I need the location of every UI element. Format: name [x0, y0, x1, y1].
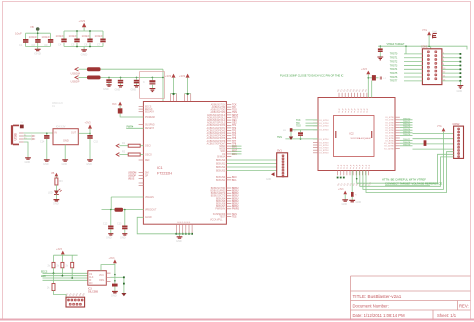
IC2 top inside pin names vertical: [339, 108, 369, 113]
capacitor C14 regulator input: [40, 133, 50, 166]
supply +5V LED chain: [51, 172, 58, 178]
resistor R9 near CPLD: [283, 128, 296, 140]
svg-text:OUT: OUT: [71, 132, 77, 135]
svg-text:ACBUS7/GPIOH7: ACBUS7/GPIOH7: [207, 142, 226, 145]
svg-text:GND: GND: [53, 203, 59, 206]
svg-text:C6: C6: [84, 43, 88, 47]
wire BDBUS to SV1: [226, 166, 276, 168]
ground GND under IC1: [176, 234, 182, 243]
wire USB GND down: [24, 142, 28, 158]
svg-text:CS: CS: [89, 274, 93, 276]
supply +3V3 right of EEPROM: [109, 257, 117, 265]
svg-text:ADBUS3/TMS: ADBUS3/TMS: [211, 111, 226, 114]
svg-text:ACBUS5/GPIOH5: ACBUS5/GPIOH5: [207, 137, 226, 140]
svg-text:ADBUS1/TDI: ADBUS1/TDI: [212, 106, 226, 109]
svg-text:TDI: TDI: [296, 123, 300, 125]
connector CON1 top right: [421, 46, 442, 85]
pin BDBUS7: [226, 205, 231, 207]
ground GND right of CON1: [457, 86, 464, 94]
wire EECS to EEPROM: [43, 272, 88, 274]
pin ACBUS3/GPIOH3: [226, 132, 231, 134]
svg-text:GND: GND: [62, 163, 68, 166]
svg-text:ORG: ORG: [99, 280, 104, 282]
supply arrow above CON1: [422, 29, 431, 46]
svg-text:CON1: CON1: [421, 46, 428, 49]
svg-text:GND: GND: [342, 203, 348, 206]
svg-text:GND: GND: [120, 237, 126, 240]
junction at 429: [428, 45, 430, 47]
svg-text:+3V3: +3V3: [179, 74, 186, 78]
svg-text:VREGIN: VREGIN: [145, 197, 154, 199]
svg-text:DP: DP: [145, 175, 149, 177]
svg-text:CLK: CLK: [89, 277, 94, 279]
svg-text:USBDP: USBDP: [128, 175, 136, 177]
IC2 bottom slanted pin labels: [338, 181, 373, 186]
resistor R6 pullup: [66, 255, 74, 278]
bead label and mark: [380, 77, 382, 80]
svg-text:BDBUS1: BDBUS1: [216, 163, 226, 165]
wire EEQ to EEPROM: [43, 279, 88, 281]
svg-text:VCC: VCC: [99, 275, 104, 277]
svg-text:ADBUS7/GPIOL3: ADBUS7/GPIOL3: [207, 122, 226, 125]
EEPROM pull-up rail wire: [54, 254, 78, 256]
polarized capacitor C17 top right: [432, 31, 438, 39]
svg-text:PLACE 100NF CLOSE TO EACH VCC: PLACE 100NF CLOSE TO EACH VCC PIN OF THE…: [280, 74, 344, 78]
wires CPLD to CON2: [413, 134, 454, 150]
junctions pullups: [53, 272, 74, 279]
svg-text:AGND: AGND: [145, 216, 152, 219]
svg-text:ADBUS4/GPIOL0: ADBUS4/GPIOL0: [207, 114, 226, 117]
junction VCORE left: [110, 209, 112, 211]
svg-text:PWRS: PWRS: [232, 209, 239, 211]
svg-text:IO_1/TDI: IO_1/TDI: [320, 123, 329, 125]
wire EECLK to EEPROM: [43, 275, 88, 277]
ferrite bead FB1: [87, 67, 101, 71]
svg-text:BCBUS1: BCBUS1: [216, 180, 226, 182]
svg-text:D-: D-: [24, 134, 26, 136]
svg-text:100nF: 100nF: [95, 34, 104, 38]
pin BDBUS6: [226, 203, 231, 205]
wire JTAG bus 2: [360, 157, 454, 186]
IC2 top pin stubs: [339, 93, 367, 98]
svg-text:C1: C1: [19, 43, 23, 47]
wire stub to GND from last CON1 row: [459, 81, 461, 86]
supply +3V3 arrow group1 above IC1: [165, 74, 177, 102]
svg-text:ACBUS2/GPIOH2: ACBUS2/GPIOH2: [207, 129, 226, 132]
svg-text:+3V3: +3V3: [79, 19, 86, 23]
wire TMS long at CPLD left: [285, 138, 318, 140]
pin ADBUS5/GPIOL1: [226, 117, 231, 119]
svg-text:IO_9/TDI: IO_9/TDI: [320, 153, 329, 155]
svg-text:GND: GND: [63, 139, 69, 143]
ground GND under USB: [25, 158, 31, 164]
wire drop from junction: [405, 46, 407, 54]
supply +3V3 symbol bank2: [79, 19, 87, 31]
pin MISO: [226, 145, 231, 147]
svg-text:BDBUS2: BDBUS2: [216, 167, 226, 169]
pin BDBUS2/RTS: [226, 192, 231, 194]
pin SI/WUA: [226, 156, 231, 158]
svg-text:IO_2/TDI: IO_2/TDI: [320, 126, 329, 128]
svg-text:G G G G G G: G G G G G G: [177, 222, 191, 224]
pin BDBUS0/TXD: [226, 187, 231, 189]
svg-text:TRGT9: TRGT9: [403, 144, 411, 146]
svg-text:ADBUS2/TDO: ADBUS2/TDO: [211, 109, 226, 112]
pin ACBUS5/GPIOH5: [226, 137, 231, 139]
wire BDBUS to SV1: [226, 163, 276, 165]
wire USB D+: [24, 138, 32, 140]
svg-text:TRGT6: TRGT6: [403, 134, 411, 136]
pin ACBUS6/GPIOH6: [226, 140, 231, 142]
net arrow USBDP: [75, 76, 79, 80]
svg-text:BC1: BC1: [232, 180, 237, 182]
capacitor C3 100nF: [48, 39, 53, 43]
svg-text:PWRSAV: PWRSAV: [215, 208, 225, 211]
svg-text:C4: C4: [58, 43, 62, 47]
svg-text:100nF: 100nF: [69, 34, 78, 38]
pin ACBUS4/GPIOH4: [226, 135, 231, 137]
supply +3V3 EEPROM rail: [56, 248, 65, 255]
pin ADBUS6/GPIOL2: [226, 119, 231, 121]
wire VREGIN from left: [111, 196, 143, 198]
svg-text:IO_4/TDI: IO_4/TDI: [320, 139, 329, 141]
svg-text:DM: DM: [145, 172, 149, 174]
capacitor C15 regulator output: [86, 133, 98, 166]
IC3 EEPROM 93LC56B: [88, 271, 107, 294]
voltage regulator IC4: [53, 126, 78, 145]
IC2 CPLD outer box: [318, 98, 395, 171]
svg-text:LED: LED: [48, 192, 53, 195]
svg-text:+3V3: +3V3: [165, 74, 172, 78]
svg-text:VTG: VTG: [422, 29, 427, 32]
LED1: [48, 189, 62, 195]
svg-text:C14: C14: [40, 141, 45, 144]
wire JTAG bus 4: [366, 152, 454, 193]
svg-text:TEST: TEST: [219, 217, 225, 219]
svg-text:OSCI: OSCI: [145, 146, 151, 148]
pin ADBUS7/GPIOL3: [226, 122, 231, 124]
pin BDBUS3/CTS: [226, 195, 231, 197]
svg-text:100nF: 100nF: [82, 34, 91, 38]
ferrite bead FB3: [368, 75, 378, 80]
resistor R3 vertical: [55, 178, 63, 191]
CON1 right pin numbers: [443, 52, 446, 81]
svg-text:ACBUS4/GPIOH4: ACBUS4/GPIOH4: [207, 135, 226, 138]
wires TCK TDI TDO at CPLD left: [306, 120, 319, 126]
svg-text:SV1: SV1: [277, 150, 282, 153]
wire VTREF long top: [380, 46, 467, 49]
pin ACBUS1/GPIOH1: [226, 127, 231, 129]
supply +3V3 top-left of IC1: [112, 102, 122, 109]
svg-text:VBUS: VBUS: [128, 178, 135, 180]
svg-text:IN: IN: [55, 132, 58, 135]
junction at 406: [405, 45, 407, 47]
junction VCORE right: [124, 209, 126, 211]
decoupling capacitor C9: [115, 77, 124, 92]
pin ADBUS0/TCK: [226, 104, 231, 106]
resistor R4 pullup: [48, 255, 56, 273]
crystal capacitor C11 inside box: [143, 77, 155, 92]
junction bus: [356, 178, 358, 180]
svg-text:TMS: TMS: [277, 137, 282, 139]
svg-text:100nF: 100nF: [41, 35, 50, 39]
svg-text:TRGT4: TRGT4: [390, 69, 398, 71]
op-amp: none; IC1 FT2232H box: [143, 102, 226, 225]
resistor R11 under CPLD: [351, 171, 357, 197]
net arrows USBDM USBDP at USB: [32, 135, 35, 140]
CON1 left wires with net labels: [390, 54, 423, 83]
svg-text:93LC56B: 93LC56B: [88, 291, 98, 294]
svg-text:C5: C5: [71, 43, 75, 47]
connector SV1: [277, 150, 288, 177]
pin ADBUS4/GPIOL0: [226, 114, 231, 116]
junctions bank2: [76, 30, 91, 47]
wire regulator gnd: [62, 145, 69, 166]
pin BDBUS5: [226, 200, 231, 202]
svg-text:Sheet: 1/1: Sheet: 1/1: [437, 313, 457, 318]
svg-text:+3V3: +3V3: [109, 257, 116, 260]
USB connector X1 bracket: [12, 125, 19, 144]
svg-text:Date: 1/12/2011 1:08:14 PM: Date: 1/12/2011 1:08:14 PM: [353, 313, 406, 318]
svg-text:+3V3: +3V3: [338, 189, 344, 191]
pin MOSI: [226, 148, 231, 150]
svg-text:ACBUS0/GPIOH0: ACBUS0/GPIOH0: [207, 124, 226, 127]
wire JTAG bus 1: [357, 154, 454, 183]
pin TEST: [226, 216, 231, 218]
ferrite bead FB2: [87, 76, 101, 80]
capacitor C6 100nF: [87, 39, 92, 43]
wire VBUS from USB to regulator: [24, 132, 53, 134]
svg-text:GND: GND: [356, 201, 362, 204]
svg-text:GND: GND: [103, 88, 109, 91]
svg-text:SI/WUA: SI/WUA: [217, 155, 226, 158]
svg-text:TRGT7: TRGT7: [390, 81, 398, 83]
svg-text:C15: C15: [94, 141, 99, 144]
svg-text:GND: GND: [34, 52, 42, 56]
svg-text:ADBUS0/TCK: ADBUS0/TCK: [211, 103, 226, 106]
supply arrow under CPLD: [338, 189, 347, 200]
svg-text:VTG: VTG: [437, 126, 442, 128]
svg-text:ADBUS6/GPIOL2: ADBUS6/GPIOL2: [207, 119, 226, 122]
junction bank1 top: [37, 32, 39, 34]
svg-text:10uF: 10uF: [15, 32, 22, 36]
IC2 right net wires with labels: [400, 118, 413, 146]
pin BDBUS1/RXD: [226, 190, 231, 192]
junctions on vcc vertical: [114, 274, 116, 276]
decoupling capacitor C8: [103, 77, 112, 91]
pin ADBUS2/TDO: [226, 109, 231, 111]
capacitor C18 on VTREF wire: [377, 45, 383, 59]
resistor R5 pullup: [57, 255, 64, 276]
capacitor bank 2 rails (wire): [64, 31, 103, 47]
diode/bead on PWREN line: [118, 108, 123, 113]
wire to FB2: [79, 76, 88, 78]
svg-text:BDBUS0: BDBUS0: [216, 160, 226, 162]
svg-text:VTREF TARGET: VTREF TARGET: [387, 43, 406, 46]
svg-text:GND: GND: [115, 89, 121, 92]
svg-text:EECS: EECS: [41, 271, 48, 273]
svg-text:IO_0/TDI: IO_0/TDI: [320, 120, 329, 122]
svg-text:100nF: 100nF: [56, 34, 65, 38]
svg-text:USB: USB: [14, 133, 18, 141]
resistor R1 on OSCI line with net arrow: [116, 142, 143, 148]
capacitor C4 100nF: [61, 39, 66, 43]
decoupling capacitor C10: [131, 77, 140, 92]
ground GND EEPROM: [111, 287, 118, 298]
svg-text:CON2: CON2: [453, 123, 461, 126]
capacitor bank 1 rails (wire): [26, 33, 51, 46]
resistor R10 vertical near CON2: [424, 140, 430, 146]
svg-text:EEDATA: EEDATA: [145, 111, 154, 114]
svg-text:DO: DO: [89, 283, 93, 285]
pin SCK: [226, 150, 231, 152]
svg-text:TRGT2: TRGT2: [390, 61, 398, 63]
ferrite bead L1 on VCORE: [115, 208, 124, 212]
svg-text:C12: C12: [103, 223, 108, 226]
IC2 left pin names: [320, 120, 329, 155]
wire tie vertical 2: [121, 276, 126, 296]
svg-text:TRGT0: TRGT0: [390, 54, 398, 56]
svg-text:+3V3: +3V3: [56, 248, 63, 251]
supply +3V3 arrow above CPLD: [361, 68, 370, 98]
wire EEDATA to EEPROM: [43, 277, 88, 279]
svg-text:GND: GND: [176, 240, 182, 243]
svg-text:ACBUS6/GPIOH6: ACBUS6/GPIOH6: [207, 140, 226, 143]
IC2 top slanted pin labels: [337, 88, 368, 92]
connector JP1 jumper block: [66, 297, 85, 307]
svg-text:TRGT6: TRGT6: [390, 77, 398, 79]
svg-text:GND: GND: [111, 294, 117, 297]
IC2 bottom inside pin names: [337, 164, 370, 169]
svg-text:GND: GND: [86, 163, 92, 166]
svg-text:PWR#: PWR#: [127, 126, 134, 128]
svg-text:IO_3/TDI: IO_3/TDI: [320, 130, 329, 132]
svg-text:TDO: TDO: [296, 126, 301, 128]
connector CON2: [453, 123, 464, 159]
svg-text:3V3: 3V3: [112, 103, 117, 106]
svg-text:REV:: REV:: [459, 303, 469, 308]
supply VCC5 symbol bank1: [30, 25, 40, 33]
svg-text:VB: VB: [30, 25, 34, 29]
wire vcc down to CPLD pin: [371, 81, 373, 98]
svg-text:RESET#: RESET#: [145, 128, 155, 130]
ground GND under LED: [53, 195, 59, 206]
ground GND bank2: [81, 47, 89, 57]
connector JP1 slanted labels: [66, 293, 86, 297]
svg-text:10uF: 10uF: [432, 31, 438, 33]
wire JTAG bus 3: [363, 134, 444, 190]
frame bottom thick line: [0, 319, 474, 321]
svg-text:USBDP: USBDP: [71, 80, 80, 84]
junction VCCIO: [162, 77, 164, 79]
pin CS: [226, 153, 231, 155]
svg-text:BDBUS3: BDBUS3: [216, 170, 226, 172]
capacitor C16 near CPLD: [291, 130, 318, 140]
svg-text:Document Number:: Document Number:: [353, 303, 389, 308]
pin ACBUS0/GPIOH0: [226, 124, 231, 126]
svg-text:C3: C3: [44, 43, 48, 47]
wire bead to RESET pin: [120, 114, 143, 118]
svg-text:ACBUS1/GPIOH1: ACBUS1/GPIOH1: [207, 127, 226, 130]
svg-text:IC1: IC1: [157, 166, 163, 170]
svg-text:C7: C7: [97, 43, 101, 47]
svg-text:GND: GND: [106, 237, 112, 240]
wire USB D-: [24, 135, 32, 137]
connector pin cross marks: [68, 51, 460, 305]
junction CPLD vcc: [368, 77, 370, 79]
svg-text:TES: TES: [232, 217, 237, 219]
svg-text:VREGOUT: VREGOUT: [145, 209, 157, 211]
wire VCORE rail: [102, 209, 144, 211]
wire VTREF left tail: [378, 45, 380, 47]
pin ADBUS1/TDI: [226, 106, 231, 108]
USB shield pin pad: [20, 125, 24, 129]
ground GND under CPLD b: [349, 197, 361, 204]
svg-text:EED: EED: [41, 276, 46, 278]
IC1 bottom pins GND bar: [176, 224, 194, 235]
svg-text:PWREN#: PWREN#: [145, 117, 156, 119]
svg-text:XC2C32A-4VQG44C: XC2C32A-4VQG44C: [351, 137, 372, 140]
pin PWRSAV: [226, 208, 231, 210]
pin BCBUS0: [226, 176, 231, 178]
svg-text:TRGT5: TRGT5: [390, 73, 398, 75]
wire BDBUS to SV1: [226, 159, 276, 161]
inner box pin ticks: [336, 131, 372, 138]
wire AGND loop under IC1: [137, 217, 176, 234]
resistor R2 on OSCO line with net arrow: [116, 151, 143, 157]
resistor R8: [112, 284, 118, 287]
svg-text:USBDM: USBDM: [71, 71, 80, 75]
svg-text:C13: C13: [117, 223, 122, 226]
supply arrow near CON2: [437, 126, 445, 133]
svg-text:USBDM: USBDM: [128, 172, 136, 174]
svg-text:100nF: 100nF: [29, 35, 38, 39]
resistor R7 lower: [47, 273, 66, 297]
supply +3V3 at regulator output: [85, 121, 93, 135]
svg-text:CONNECT TARGET VOLTAGE REFEREN: CONNECT TARGET VOLTAGE REFERENCE: [385, 181, 442, 185]
capacitor C7 100nF: [100, 39, 105, 43]
svg-text:GND: GND: [266, 179, 271, 181]
EEPROM right pin stubs: [106, 273, 110, 281]
wire ORG row: [111, 276, 124, 278]
svg-text:GND: GND: [81, 52, 89, 56]
svg-text:ADBUS5/GPIOL1: ADBUS5/GPIOL1: [207, 116, 226, 119]
svg-text:TCK: TCK: [296, 120, 301, 122]
CON1 right stubs with ties: [442, 53, 461, 82]
net arrow USBDM: [75, 67, 79, 71]
wire EEPROM vcc: [101, 265, 115, 284]
IC1 left pin stubs: [139, 107, 144, 186]
svg-text:FT2232H: FT2232H: [157, 172, 172, 176]
wire regulator output: [78, 132, 90, 134]
svg-text:GND: GND: [457, 90, 463, 93]
svg-text:SUSPND: SUSPND: [145, 124, 155, 126]
svg-text:+3V3: +3V3: [361, 68, 368, 71]
svg-text:VCCA VPLL: VCCA VPLL: [210, 219, 223, 222]
wire FB1 to IC1: [101, 68, 164, 70]
pin ACBUS2/GPIOH2: [226, 130, 231, 132]
wire VREGIN down to VCORE rail: [110, 197, 112, 210]
IC2 right pin names and stubs: [384, 117, 400, 150]
svg-text:TRGT3: TRGT3: [390, 65, 398, 67]
svg-text:IC4 3.3V: IC4 3.3V: [56, 126, 66, 129]
svg-text:REF: REF: [145, 160, 150, 162]
svg-text:+3V3: +3V3: [85, 121, 92, 125]
wire FB2 along VCCIO row: [101, 76, 164, 78]
USB pin stubs: [19, 133, 24, 142]
IC2 CPLD inner box: [334, 116, 375, 157]
IC2 bottom pin stubs: [338, 171, 369, 176]
